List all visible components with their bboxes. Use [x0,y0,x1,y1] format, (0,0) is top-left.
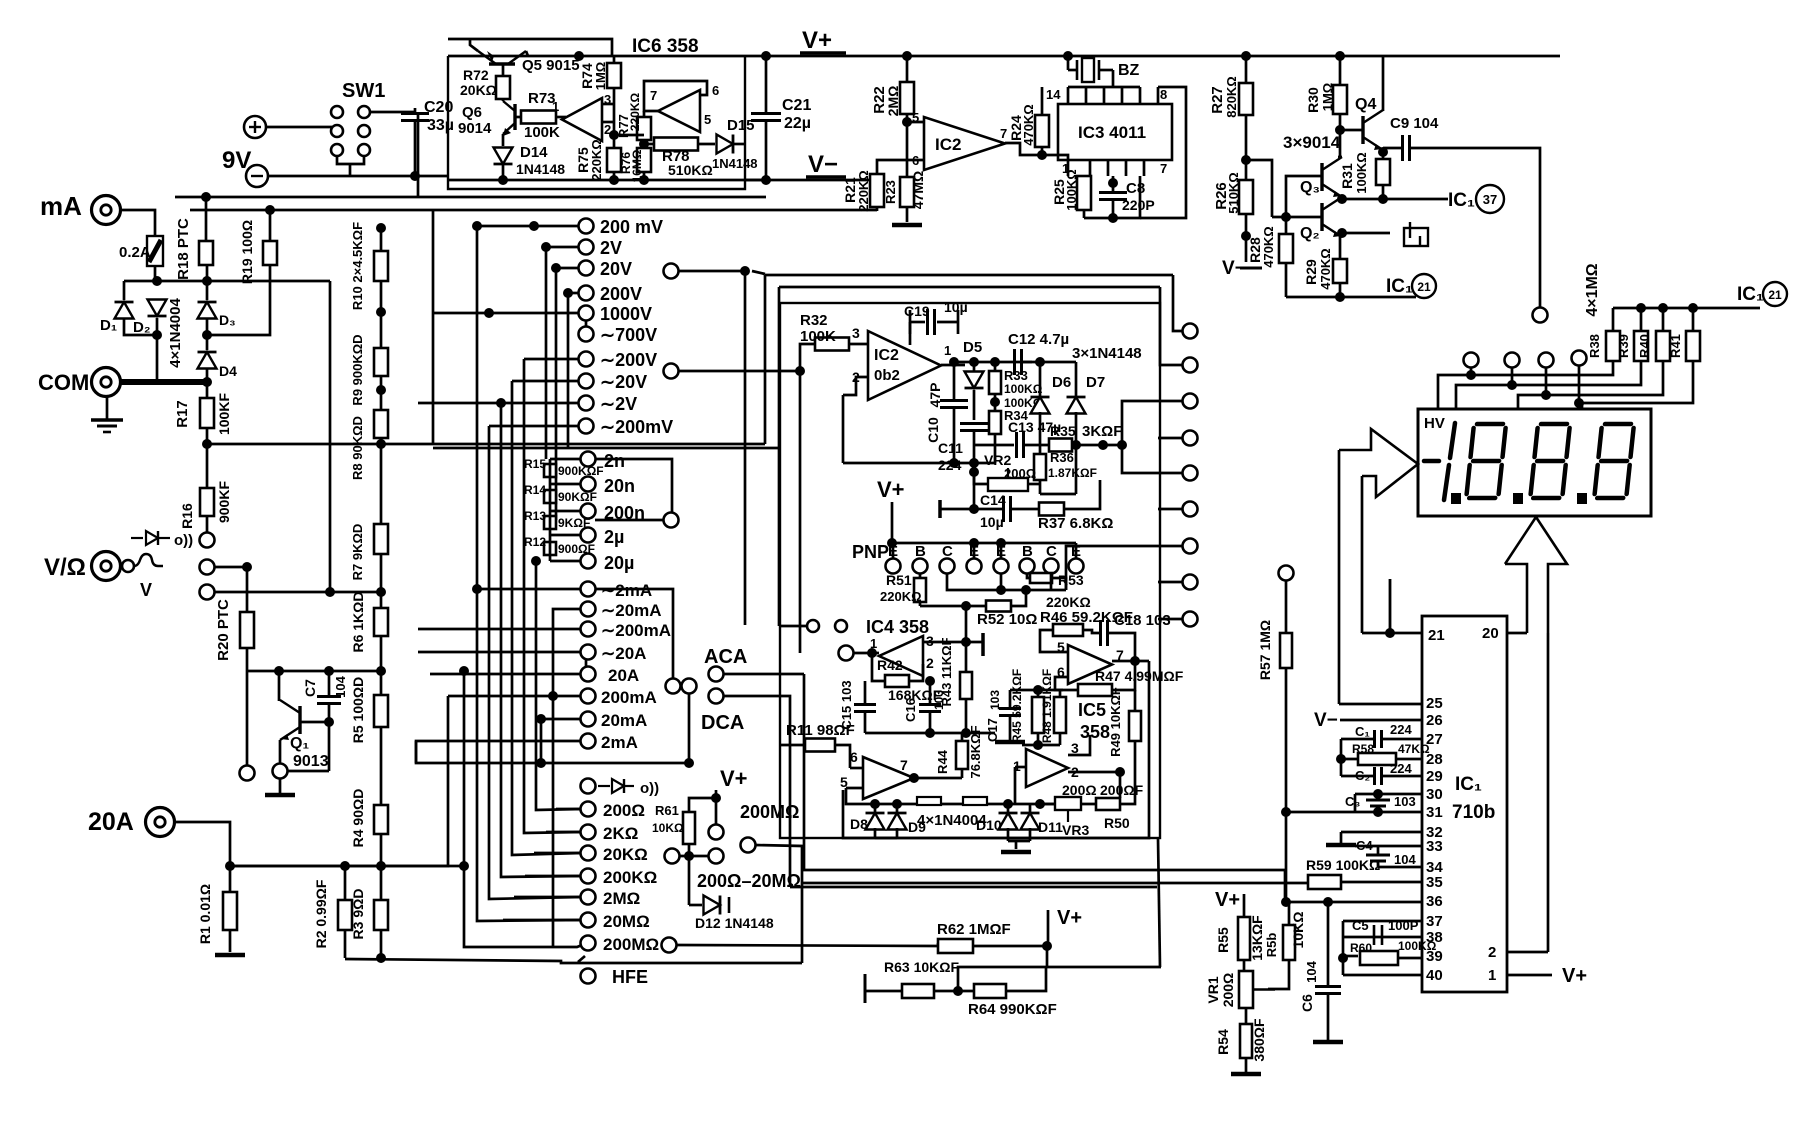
svg-text:20MΩ: 20MΩ [603,912,650,931]
wire col 501 [501,403,581,877]
svg-text:VR3: VR3 [1062,822,1089,838]
wire nest line2 [779,286,1160,289]
svg-text:7: 7 [1160,161,1167,176]
diode D2 [148,300,167,317]
wire R58 right [1396,758,1422,761]
wire R75 bottom [613,172,616,180]
wire D5 bottom [973,390,976,420]
wire pin25 route [1339,703,1422,706]
junction R27 top [1241,51,1251,61]
wire R51 bottom [919,602,922,606]
wire R26 to Q2 base [1246,160,1272,217]
wire IC5a out [1112,660,1149,663]
svg-text:2V: 2V [600,238,622,258]
wire D7 branch [1040,361,1076,364]
wire R62 right [973,945,1047,948]
junction R40 top [1658,303,1668,313]
terminal V row3 [200,585,215,600]
wire bottom rail Q2 [1286,296,1376,299]
wire 200mV stub [477,225,579,228]
wire DCA out [723,696,790,886]
fuse 0.2A [147,236,163,266]
junction out a [949,357,959,367]
wire R77 top to pin7 [643,111,646,117]
wire diode top rail [124,280,330,283]
junction D14 V- [498,175,508,185]
svg-text:C7: C7 [302,679,318,697]
svg-text:HV: HV [1424,415,1445,432]
wire ~2mA bracket [595,589,673,679]
wire C3 bracket [1354,794,1357,812]
wire col 512 [512,381,581,855]
svg-text:470KΩ: 470KΩ [1318,248,1333,290]
svg-text:IC5: IC5 [1078,700,1106,720]
wire BZ right [1099,69,1113,72]
wire R28 bottom [1285,263,1288,297]
wire 2n bracket [595,459,672,520]
svg-text:3: 3 [852,325,860,341]
wire D3 top lead [206,265,209,300]
wire C19 tap [909,322,912,345]
terminal diode range [581,779,596,794]
wire COM gnd lead [106,397,109,420]
diode D14 [494,148,513,165]
svg-text:10KΩ: 10KΩ [652,821,684,835]
wire R29 bottom [1339,283,1342,297]
terminal ACA switch b [682,679,697,694]
svg-text:R57 1MΩ: R57 1MΩ [1257,620,1273,680]
junction R45 top [1033,685,1043,695]
terminal display drive 3 [1539,353,1554,368]
terminal PNP C2 [940,559,955,574]
wire IC3 top pin 2 [1103,87,1106,104]
capacitor C2 224 [1375,767,1382,785]
junction BC 1001 [996,585,1006,595]
wire C17 top [1009,690,1012,708]
symbol arrow up to display [1505,517,1567,633]
svg-text:R38: R38 [1587,334,1602,358]
wire D7 top [1075,362,1078,396]
svg-text:D₃: D₃ [219,312,236,328]
resistor R45 [1032,697,1044,733]
symbol arrow into display [1339,429,1418,497]
terminal range 2n [581,452,596,467]
wire R30 top [1339,56,1342,85]
junction R62 V+ [1042,941,1052,951]
svg-text:R19 100Ω: R19 100Ω [239,220,255,284]
ground pin32 [1326,843,1356,848]
junction R39 top [1636,303,1646,313]
ground C17 [995,740,1025,745]
svg-text:20mA: 20mA [601,711,647,730]
svg-text:HFE: HFE [612,967,648,987]
terminal mid 6 [1183,502,1198,517]
wire 20u tap [549,555,552,561]
display digits -1888 [1424,423,1634,500]
resistor R34 [989,411,1001,434]
wire R38 top [1612,308,1615,331]
svg-text:4×1N4004: 4×1N4004 [167,298,184,368]
svg-text:220KΩ: 220KΩ [628,92,642,131]
wire pin2 to rail [842,395,845,463]
svg-text:R49 10KΩF: R49 10KΩF [1108,687,1123,757]
wire disp w1 [1438,367,1471,409]
resistor R19 [263,241,277,265]
svg-text:37: 37 [1483,192,1497,207]
wire D8 top [874,804,877,812]
wire R64 up [1006,967,1046,991]
capacitor C19 10u [928,309,935,335]
svg-text:36: 36 [1426,893,1443,910]
wire node down [965,606,968,642]
svg-text:7: 7 [650,88,657,103]
wire stub pin21 [1389,579,1392,633]
diode D5 [965,372,984,389]
svg-text:1MΩ: 1MΩ [1320,83,1335,111]
transistor Q6 9014 [503,101,515,136]
wire IC3 top pin 4 [1139,87,1142,104]
resistor R74 [607,63,621,88]
svg-text:470KΩ: 470KΩ [1261,226,1276,268]
wire V- pin26 [1340,719,1422,722]
ground D10 [1001,850,1031,855]
wire pin38 route [1343,936,1422,939]
op-amp IC4b [863,757,914,799]
junction R26 bot [1241,231,1251,241]
junction out b [969,357,979,367]
svg-text:1MΩ: 1MΩ [593,62,608,90]
junction C3 pin31 [1373,807,1383,817]
svg-text:R20 PTC: R20 PTC [215,599,232,661]
wire bottom rail A [345,959,802,963]
resistor R10 [374,251,388,281]
terminal range 200M&#937; [581,936,596,951]
wire Q3 base route [1286,176,1322,234]
capacitor C14 10u [1004,496,1011,522]
wire C6 bottom [1327,994,1330,1040]
wire R38 rail [1613,307,1760,310]
svg-text:Q4: Q4 [1355,96,1376,113]
svg-text:ACA: ACA [704,646,747,668]
buzzer BZ crystal [1077,58,1099,82]
svg-text:D4: D4 [219,363,237,379]
svg-text:8: 8 [1160,87,1167,102]
wire R20 top [246,567,249,612]
terminal mid 4 [1183,431,1198,446]
display decimal point 2 [1513,493,1523,504]
svg-text:1: 1 [1488,967,1496,984]
wire C20 bottom lead [414,121,417,176]
resistor R52 [986,601,1011,612]
terminal range 20&#181; [581,554,596,569]
junction chain top [376,223,386,233]
resistor R36 [1034,454,1046,480]
resistor R29 [1333,259,1347,283]
resistor R14 [544,490,556,503]
svg-text:3KΩF: 3KΩF [1082,423,1122,440]
junction rail C10 [949,458,959,468]
junction Q1 base [324,717,334,727]
svg-text:220KΩ: 220KΩ [880,589,922,604]
wire C11 bottom [973,431,976,509]
terminal IC1 pin37 circle [1476,185,1504,213]
wire disp w2 [1456,367,1512,497]
junction pin2 [1115,767,1125,777]
wire mid w7 [1158,508,1183,511]
capacitor C12 4.7u [1015,349,1022,375]
junction R57 pin31 [1281,807,1291,817]
junction C5 R60 [1338,953,1348,963]
wire V- underline [806,175,846,179]
terminal range 20mA [581,712,596,727]
svg-text:R29: R29 [1303,259,1319,285]
svg-text:D8: D8 [850,816,868,832]
junction R32 in [795,366,805,376]
wire cell bottom rail [843,462,995,465]
wire R21 bottom [876,207,879,211]
svg-text:R18 PTC: R18 PTC [175,218,192,280]
wire R11 right [835,745,850,760]
junction R27 R26 [1241,155,1251,165]
svg-text:33µ: 33µ [427,117,454,134]
junction fuse node [152,276,162,286]
terminal range ~20mA [581,602,596,617]
transistor Q1 9013 [280,700,300,740]
transistor Q2 [1322,197,1342,237]
resistor R50 [1096,798,1120,810]
svg-text:0.2A: 0.2A [119,244,151,261]
svg-text:R72: R72 [463,67,489,83]
terminal range 200K&#937; [581,869,596,884]
ground R1 [215,953,245,958]
wire 20A to R1 [175,822,230,866]
wire D6 top [1039,362,1042,396]
junction 20V right [740,266,750,276]
svg-text:C16: C16 [903,698,918,722]
wire C4 top [1377,846,1380,855]
junction col464 rail [459,861,469,871]
wire IC3 top bracket [1068,86,1140,89]
terminal IC1 pin21 circle b [1763,282,1787,306]
transistor Q5 9015 [478,51,526,64]
resistor R30 [1333,85,1347,114]
wire R14 tap [550,483,581,486]
wire R15 top [550,458,581,461]
wire R43 top [965,642,968,672]
junction R8 R7 [376,439,386,449]
svg-text:200mA: 200mA [601,688,657,707]
wire mid w9 [1158,581,1183,584]
wire 200ohm stub [556,808,581,811]
junction rail R43 [961,728,971,738]
resistor R4 [374,805,388,834]
svg-text:2: 2 [1488,944,1496,961]
wire C2 left [1341,775,1374,778]
wire C14 right [1011,508,1039,511]
wire R74-R75 node [613,88,616,148]
svg-text:R7 9KΩD: R7 9KΩD [350,524,365,581]
junction R4 R3 [376,861,386,871]
junction R22 pin5 [902,117,912,127]
junction VR3 left [1035,799,1045,809]
resistor R16 [200,488,214,516]
wire D11 bottom [1029,828,1032,841]
wire V+ stub mid [715,790,718,825]
wire R36 top [1039,445,1042,454]
resistor R40 [1656,331,1670,361]
diode D4 [198,352,217,369]
svg-text:R45 59.2KΩF: R45 59.2KΩF [1010,669,1024,743]
svg-text:10µ: 10µ [944,299,968,315]
capacitor C8 220P [1099,193,1127,200]
wire pin1 route [1507,974,1552,977]
wire pin6 lead [850,767,863,770]
svg-text:20A: 20A [608,666,639,685]
wire C7 col to emitter [287,770,329,773]
svg-text:R48 1.91KΩF: R48 1.91KΩF [1040,669,1054,743]
ground C6 [1313,1040,1343,1045]
svg-text:V+: V+ [877,477,905,502]
wire R2 bottom [344,930,347,958]
resistor R76 [637,148,651,172]
wire C14 left [974,508,1003,511]
junction rail C16 [925,728,935,738]
junction R52 R51 [961,601,971,611]
wire R76 bottom [643,172,646,180]
svg-text:Q5 9015: Q5 9015 [522,57,580,74]
svg-text:2µ: 2µ [604,527,624,547]
svg-text:25: 25 [1426,695,1443,712]
wire 20mA stub [541,719,581,763]
svg-text:R44: R44 [935,749,950,774]
svg-text:Q₁: Q₁ [290,735,309,752]
svg-text:D₁: D₁ [100,317,117,334]
symbol crystal Q2 [1404,222,1428,246]
svg-text:37: 37 [1426,913,1443,930]
wire Q1 emitter to gnd [279,778,282,793]
resistor R46 [1053,624,1083,636]
wire low mesh 2 [230,696,448,866]
wire C19 left [910,321,925,324]
wire R46 out [1083,630,1100,633]
svg-text:20µ: 20µ [604,553,634,573]
wire mid w10 [1158,618,1183,621]
wire pin2 up [1547,633,1550,952]
wire Q3 collector [1338,156,1342,159]
capacitor C18 103 [1101,620,1108,646]
svg-text:o)): o)) [640,780,659,797]
terminal range 20K&#937; [581,846,596,861]
svg-text:R47 4.99MΩF: R47 4.99MΩF [1095,668,1184,684]
wire pnp E5 [1000,543,1003,559]
wire D15 out [734,143,745,146]
wire R45 bottom [1037,733,1040,745]
capacitor C3 103 [1366,800,1390,806]
svg-text:C: C [942,543,953,560]
wire pin5 lead [907,121,924,124]
capacitor C11 224 [960,424,988,431]
svg-text:0b2: 0b2 [874,367,900,384]
svg-text:R53: R53 [1058,572,1084,588]
junction D8 top [870,799,880,809]
wire C13 right [1024,444,1049,447]
wire 2V stub [546,246,579,249]
wire disp w3b [1546,361,1663,395]
junction col501 top [496,398,506,408]
svg-text:IC2: IC2 [935,135,961,154]
wire SW1 to C20 [370,111,415,114]
ground R23 [892,223,922,228]
svg-text:V+: V+ [1215,889,1240,911]
wire R35 right [1072,444,1103,447]
junction 200mV col534 [529,221,539,231]
svg-text:COM: COM [38,370,89,395]
wire pin6 loop [1055,677,1078,690]
terminal PNP C6 [1044,559,1059,574]
terminal range 2&#181; [581,528,596,543]
switch SW1 contact 6 [358,144,370,156]
wire R42 left [872,653,885,681]
terminal range ~20V [579,374,594,389]
junction C3 pin30 [1373,789,1383,799]
wire R33 top [994,362,997,371]
svg-text:D5: D5 [963,339,982,356]
svg-text:R60: R60 [1350,941,1372,955]
junction R61 bottom [684,851,694,861]
terminal range 2V [579,240,594,255]
svg-text:IC₁: IC₁ [1455,774,1482,795]
terminal range 2mA [581,734,596,749]
svg-text:20KΩ: 20KΩ [603,845,648,864]
junction DCA bracket [684,758,694,768]
terminal 200n right [664,513,679,528]
wire D5 top [973,362,976,371]
wire R17 bottom [206,428,209,488]
transistor Q3 [1322,157,1342,197]
wire D2 bottom [156,318,159,335]
svg-text:∼200V: ∼200V [600,350,657,370]
wire R6-R5 [380,636,383,695]
wire COM thick [120,379,208,385]
terminal range 200n [581,504,596,519]
junction R2 top [340,861,350,871]
svg-text:R40: R40 [1637,334,1652,358]
wire IC3 bottom pin 4 [1143,160,1146,176]
svg-text:20: 20 [1482,625,1499,642]
wire C8 top [1112,176,1115,192]
wire pin33 route [1378,845,1422,848]
junction BZ v+ [1063,51,1073,61]
svg-text:R63 10KΩF: R63 10KΩF [884,959,959,975]
terminal ACA [709,667,724,682]
wire C19 right [937,321,958,324]
svg-text:7: 7 [900,757,908,773]
wire C5 top bracket [1342,921,1345,958]
wire D8 bottom [874,828,877,838]
junction BC 1026 [1021,585,1031,595]
wire C16 bottom [929,712,932,733]
svg-text:V−: V− [1314,710,1338,731]
junction C8 bot [1108,213,1118,223]
svg-text:R62 1MΩF: R62 1MΩF [937,921,1011,938]
svg-text:IC₁: IC₁ [1386,276,1413,297]
terminal V-ohm inner [122,560,134,572]
wire C14 gnd bar v [938,500,942,518]
wire R50 right [1120,758,1135,804]
junction C1C2 [1336,754,1346,764]
wire 2mA stub [416,741,689,763]
svg-text:3×1N4148: 3×1N4148 [1072,345,1142,362]
